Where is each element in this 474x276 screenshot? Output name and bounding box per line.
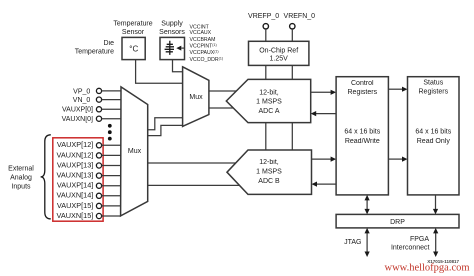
mux M2 channel mux [183,67,209,127]
svg-text:Interconnect: Interconnect [391,245,430,252]
control registers box [336,77,388,195]
on-chip ref box [249,41,309,65]
svg-text:Status: Status [423,79,443,86]
svg-text:VP_0: VP_0 [73,88,90,95]
svg-text:VREFN_0: VREFN_0 [284,13,316,20]
svg-text:VN_0: VN_0 [73,97,91,104]
svg-text:VAUXN[12]: VAUXN[12] [57,150,94,159]
wire VREFP to ref box [265,29,267,41]
svg-text:Sensor: Sensor [122,29,145,36]
wire FPGA interconnect bidirectional [435,232,437,252]
wire control to ADC B [317,183,336,185]
pad VAUXN[14] [96,193,101,198]
svg-text:Temperature: Temperature [113,21,152,28]
pad VAUXN[12] [96,153,101,158]
pad VAUXP[14] [96,183,101,188]
arrow into status upper [402,87,408,92]
arrow into control (from ADC B) [331,157,337,162]
svg-text:DRP: DRP [390,219,405,226]
wire control to DRP bidirectional [366,200,368,211]
wire VAUXP[15] [101,205,121,207]
svg-text:12-bit,: 12-bit, [259,90,279,97]
svg-text:VCCO_DDR(1): VCCO_DDR(1) [190,56,224,63]
svg-text:Temperature: Temperature [75,49,114,56]
wire VAUXN[0] [102,118,121,120]
wire VAUXN[13] [101,175,121,177]
svg-text:Mux: Mux [128,148,142,155]
brace [41,135,51,219]
pad VP_0 [96,88,101,93]
svg-text:Control: Control [351,80,374,87]
status registers box [408,77,460,195]
svg-text:VAUXN[15]: VAUXN[15] [57,211,94,220]
wire Mux1 to Mux2 upper [148,118,183,130]
wire Mux1 to ADC B n [148,184,240,186]
arrow into control (from ADC A) [331,90,337,95]
wire VAUXP[12] [101,144,121,146]
wire VREFN to ref box [291,29,293,41]
wire control to status lower [388,158,402,160]
pad VREFN_0 [290,24,295,29]
wire control to ADC A [316,113,336,115]
svg-text:External: External [8,165,34,172]
svg-text:VCCAUX: VCCAUX [190,30,212,36]
group VAUX[12..15] labels pads wires [57,140,121,220]
temperature sensor box [122,37,145,59]
pad VN_0 [96,97,101,102]
wire ADC B to control registers [312,158,332,160]
pad VAUXP[13] [96,163,101,168]
svg-text:12-bit,: 12-bit, [259,159,279,166]
pad VAUXP[0] [96,107,101,112]
red highlight box [53,138,103,221]
svg-text:Read Only: Read Only [417,138,451,145]
svg-text:64 x 16 bits: 64 x 16 bits [344,129,380,136]
svg-text:Sensors: Sensors [159,29,185,36]
wire VAUXN[15] [101,215,121,217]
pad VREFP_0 [263,24,268,29]
svg-text:ADC B: ADC B [258,178,280,185]
supply sensor arrow [176,46,181,51]
adc U-B 12-bit 1MSPS ADC B [227,150,312,194]
svg-text:Registers: Registers [419,88,449,95]
wire supply sensor to Mux2 [173,60,183,72]
svg-text:VAUXP[15]: VAUXP[15] [57,201,93,210]
wire status to DRP [435,195,437,210]
svg-text:VCCBRAM: VCCBRAM [190,37,216,43]
svg-text:VAUXP[13]: VAUXP[13] [57,160,93,169]
arrow into ADC A [311,111,317,116]
svg-text:Mux: Mux [189,94,203,101]
wire VAUXN[12] [101,154,121,156]
pad VAUXN[15] [96,213,101,218]
DRP box [336,214,459,228]
svg-text:1 MSPS: 1 MSPS [256,99,282,106]
wire VAUXP[0] [102,108,121,110]
supply sensor zigzag symbol [165,41,174,55]
svg-text:64 x 16 bits: 64 x 16 bits [415,129,451,136]
pad VAUXP[15] [96,203,101,208]
svg-text:Analog: Analog [10,174,32,181]
svg-text:VAUXP[14]: VAUXP[14] [57,181,93,190]
svg-text:1 MSPS: 1 MSPS [256,168,282,175]
wire JTAG bidirectional [366,232,368,252]
svg-text:VAUXP[0]: VAUXP[0] [62,107,93,114]
wire ADC A to ADC B verticals [265,123,267,150]
wire Mux1 to ADC B p [148,162,240,164]
wire VAUXN[14] [101,195,121,197]
supply sensor box U-supply [160,37,185,59]
arrow into ADC B [312,182,318,187]
svg-text:On-Chip Ref: On-Chip Ref [259,47,298,54]
ellipsis dots [108,124,112,128]
wire VN_0 [102,99,121,101]
pad VAUXN[13] [96,173,101,178]
svg-text:VAUXP[12]: VAUXP[12] [57,140,93,149]
svg-text:FPGA: FPGA [410,236,429,243]
wire arrow stub [181,47,184,49]
wire control to status upper [388,88,402,90]
svg-text:VAUXN[14]: VAUXN[14] [57,191,94,200]
svg-text:VAUXN[13]: VAUXN[13] [57,171,94,180]
adc U-A 12-bit 1MSPS ADC A [226,79,310,122]
wire Mux1 to Mux2 lower [148,125,183,135]
svg-text:ADC A: ADC A [258,108,279,115]
wire VAUXP[13] [101,165,121,167]
svg-text:Supply: Supply [161,21,183,28]
svg-text:Registers: Registers [348,89,378,96]
arrow into status lower [402,157,408,162]
wire temp sensor to Mux2 [136,60,183,84]
wire ADC A to control registers [311,91,331,93]
wire ref box to ADC A [265,65,267,79]
svg-text:JTAG: JTAG [344,239,361,246]
svg-text:Read/Write: Read/Write [345,138,380,145]
wire VP_0 [102,90,121,92]
wire VAUXP[14] [101,185,121,187]
svg-text:1.25V: 1.25V [270,56,289,63]
wire Mux2 to ADC A n [209,107,240,109]
svg-text:www.hellofpga.com: www.hellofpga.com [385,263,470,274]
pad VAUXP[12] [96,143,101,148]
svg-text:VAUXN[0]: VAUXN[0] [62,116,93,123]
svg-text:Die: Die [103,40,114,47]
svg-text:VREFP_0: VREFP_0 [248,13,279,20]
svg-text:°C: °C [129,45,138,54]
mux M1 analog input mux [121,87,148,216]
wire Mux2 to ADC A p [209,90,240,92]
svg-text:Inputs: Inputs [11,183,31,190]
pad VAUXN[0] [96,116,101,121]
